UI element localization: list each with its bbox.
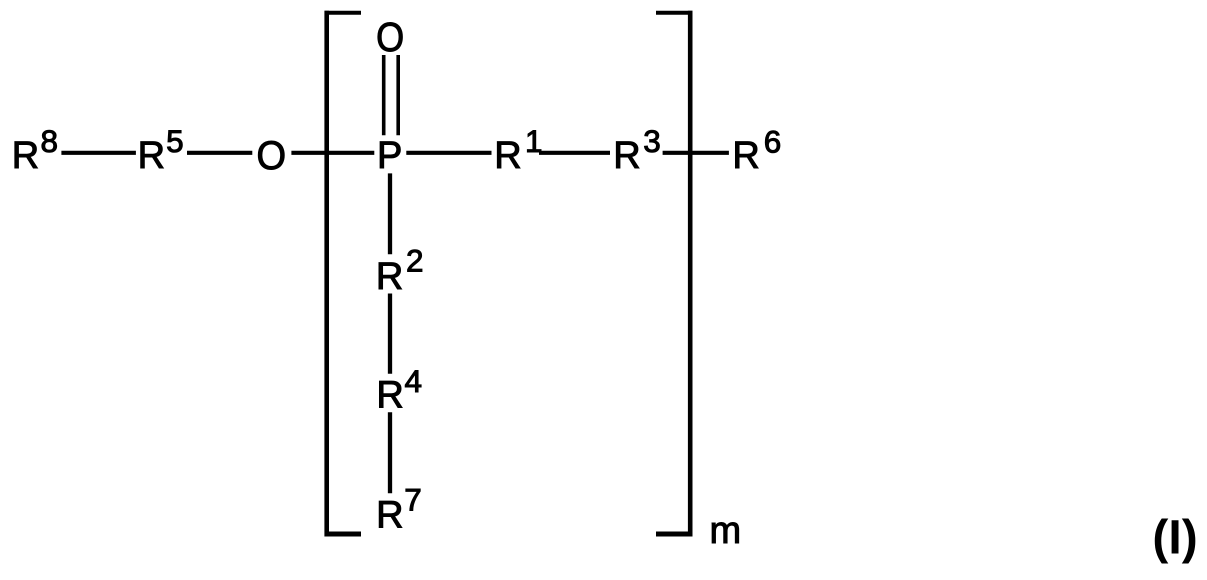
wire bond R5-O — [187, 151, 252, 155]
svg-text:3: 3 — [643, 123, 661, 159]
svg-text:O: O — [376, 15, 404, 61]
node R8 — [12, 123, 58, 177]
wire bond P-R1 — [406, 151, 491, 155]
left bracket — [325, 11, 362, 537]
svg-text:R: R — [138, 135, 165, 177]
wire bond R3-R6 crossing right bracket — [663, 151, 729, 155]
svg-text:(I): (I) — [1152, 512, 1197, 565]
svg-text:m: m — [710, 510, 742, 552]
wire double bond O=P — [384, 55, 399, 135]
svg-text:O: O — [257, 134, 287, 178]
node R7 — [376, 481, 422, 536]
svg-text:7: 7 — [404, 481, 422, 517]
svg-text:5: 5 — [166, 123, 184, 159]
wire bond O-P crossing left bracket — [291, 151, 374, 155]
node R4 — [376, 363, 422, 416]
wire bond R8-R5 — [61, 151, 135, 155]
svg-text:2: 2 — [406, 242, 424, 278]
svg-text:P: P — [377, 135, 402, 177]
wire bond R2-R4 — [388, 294, 392, 374]
node R6 — [732, 124, 781, 178]
svg-text:R: R — [376, 494, 403, 536]
svg-text:R: R — [494, 135, 521, 177]
wire bond R4-R7 — [388, 412, 392, 493]
svg-text:4: 4 — [405, 363, 423, 399]
svg-text:8: 8 — [41, 123, 59, 159]
svg-text:R: R — [12, 135, 39, 177]
right bracket — [656, 11, 693, 537]
svg-text:R: R — [376, 374, 403, 416]
node R3 — [613, 123, 661, 177]
svg-text:R: R — [376, 256, 403, 298]
svg-text:R: R — [613, 135, 640, 177]
wire bond R1-R3 — [539, 151, 610, 155]
node R1 — [494, 123, 542, 177]
svg-text:R: R — [732, 135, 759, 177]
node R5 — [138, 123, 184, 177]
node R2 — [376, 242, 424, 298]
svg-text:6: 6 — [764, 124, 782, 160]
wire bond P-R2 — [388, 173, 392, 254]
